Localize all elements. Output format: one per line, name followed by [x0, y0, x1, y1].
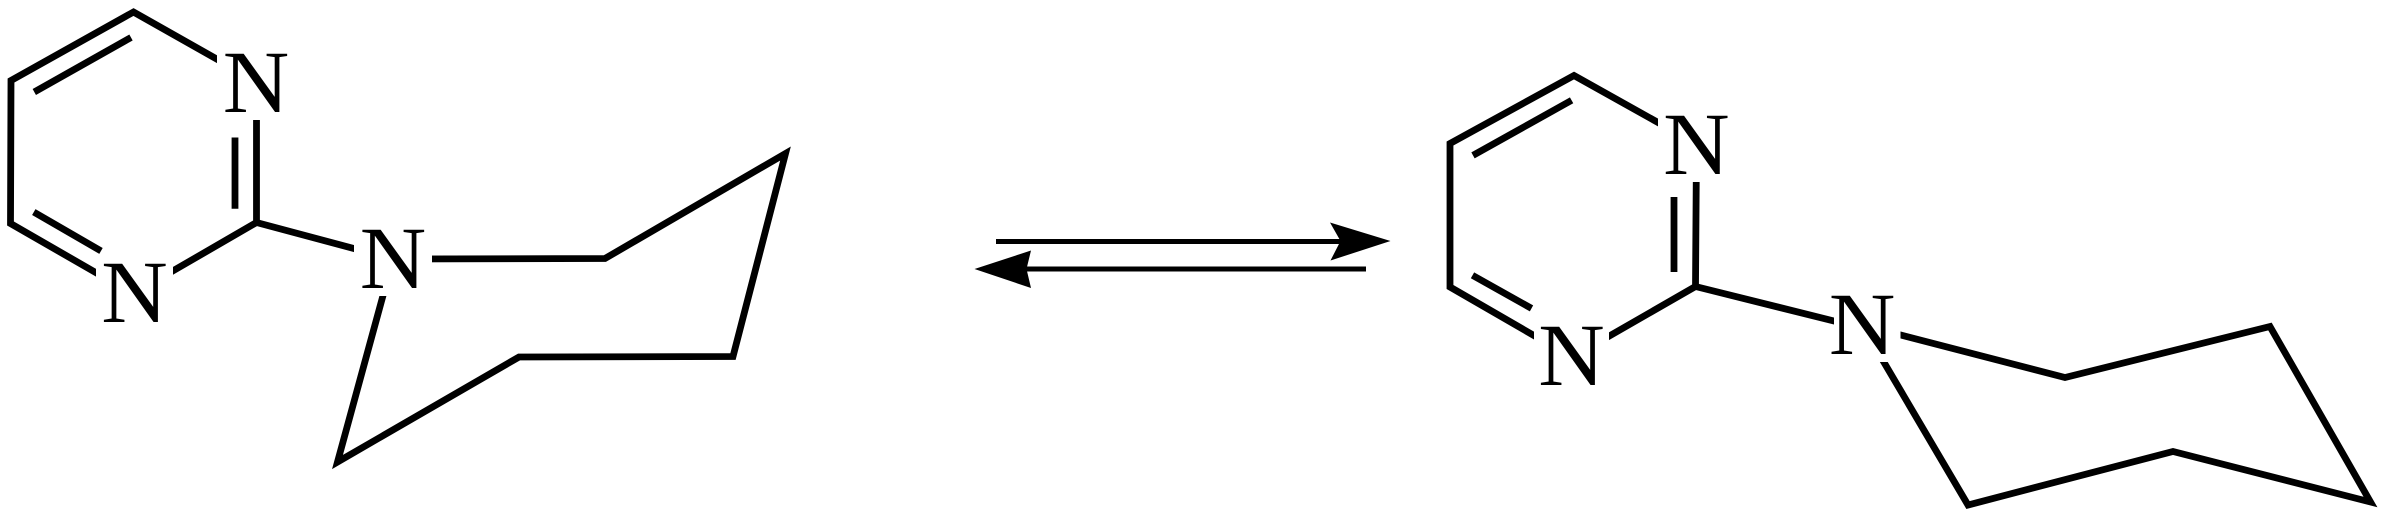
- svg-text:N: N: [223, 34, 290, 132]
- forward arrow head: [1330, 223, 1391, 261]
- right pyrimidine double bond inner line C5=C6 (top-left): [1473, 100, 1572, 155]
- left pyrimidine double bond inner line N1=C2: [232, 138, 239, 209]
- bond right pyrimidine C2 - piperidine N: [1696, 287, 1863, 329]
- box left N1: [217, 46, 295, 120]
- atom labels: [101, 34, 1895, 405]
- box right N3: [1534, 320, 1609, 393]
- svg-text:N: N: [1663, 96, 1730, 194]
- left pyrimidine double bond inner line C5=C6 (top-left): [34, 38, 131, 93]
- svg-text:N: N: [360, 210, 427, 308]
- left pyrimidine ring: [11, 12, 257, 294]
- white label boxes: [96, 46, 1901, 393]
- svg-text:N: N: [1538, 307, 1605, 405]
- left piperidine chair ring: [338, 154, 786, 463]
- right pyrimidine double bond inner line N3=C4 (bottom-left): [1473, 275, 1532, 308]
- reverse arrow shaft: [1026, 267, 1366, 272]
- left pyrimidine double bond inner line N3=C4 (bottom-left): [34, 212, 101, 251]
- right piperidine chair ring: [1862, 325, 2371, 505]
- box right piperidine N: [1834, 289, 1901, 363]
- equilibrium arrows: [975, 223, 1391, 289]
- reverse arrow head: [975, 251, 1032, 289]
- svg-text:N: N: [1829, 276, 1896, 374]
- box left N3: [96, 257, 173, 330]
- forward arrow shaft: [996, 239, 1345, 244]
- box right N1: [1658, 108, 1735, 182]
- svg-text:N: N: [101, 244, 168, 342]
- right pyrimidine ring: [1450, 76, 1697, 358]
- box left piperidine N: [354, 223, 432, 296]
- bond left pyrimidine C2 - piperidine N: [257, 223, 394, 260]
- right pyrimidine double bond inner line N1=C2: [1671, 197, 1678, 272]
